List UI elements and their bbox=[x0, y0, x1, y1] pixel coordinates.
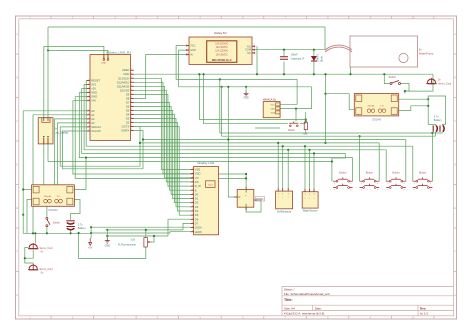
water pump M1 bbox=[350, 36, 434, 67]
svg-text:1: 1 bbox=[89, 95, 90, 97]
wire band L6 from 3V3 bbox=[84, 85, 386, 150]
svg-text:SoilMoisture: SoilMoisture bbox=[277, 209, 292, 213]
svg-text:LEDK: LEDK bbox=[195, 230, 202, 234]
svg-text:R_Potentiometer: R_Potentiometer bbox=[118, 244, 136, 247]
wire cr2040 BR to battery top bbox=[71, 200, 80, 220]
svg-text:B: B bbox=[16, 76, 18, 80]
wire cell2 bottom to L1 bbox=[441, 132, 443, 133]
svg-text:1: 1 bbox=[89, 109, 90, 111]
junction bbox=[22, 188, 24, 190]
svg-text:File: SchematicaProiectArcad_s: File: SchematicaProiectArcad_sch bbox=[284, 292, 330, 296]
junction bbox=[295, 108, 297, 110]
junction bbox=[106, 229, 108, 231]
svg-text:GND: GND bbox=[270, 108, 275, 110]
svg-text:D: D bbox=[454, 163, 456, 167]
wire capacitor bottom stub bbox=[283, 62, 285, 75]
svg-text:3V3: 3V3 bbox=[91, 83, 96, 87]
wire lcd LEDK to rail3 bbox=[170, 232, 191, 233]
svg-text:5v: 5v bbox=[438, 79, 441, 82]
wire buzzer pin1 down to CR2040 bbox=[43, 144, 45, 185]
wire arduino D pin row 6 to lcd pin 4 bbox=[134, 94, 191, 186]
svg-text:A: A bbox=[454, 32, 456, 36]
svg-text:CR2040: CR2040 bbox=[48, 208, 58, 212]
wire GND drop to band L2 bbox=[221, 87, 223, 136]
wire VCC drop to band L1 bbox=[219, 79, 221, 133]
svg-text:AREF: AREF bbox=[122, 68, 130, 72]
svg-text:Servo_Cont: Servo_Cont bbox=[40, 268, 54, 271]
svg-text:2: 2 bbox=[131, 105, 132, 107]
junction bbox=[313, 73, 315, 75]
junction bbox=[90, 232, 92, 234]
junction bbox=[219, 78, 221, 80]
wire band L5 from RESET bbox=[86, 81, 413, 147]
svg-text:D6: D6 bbox=[126, 104, 130, 108]
svg-text:2: 2 bbox=[350, 183, 351, 185]
svg-text:VCC: VCC bbox=[271, 104, 276, 106]
diode D1 1N4007 bbox=[311, 53, 323, 62]
wire arduino D pin row 4 to lcd pin 2 bbox=[134, 86, 191, 178]
wire VIN down to sensor feed line bbox=[73, 101, 246, 174]
svg-text:3.7v: 3.7v bbox=[380, 106, 384, 108]
ground symbol bottom bbox=[105, 238, 111, 247]
sensor U3 DHT22 bbox=[234, 187, 265, 211]
svg-text:3.7v: 3.7v bbox=[78, 224, 83, 227]
wire hahca pin1 hook to VCC run bbox=[280, 79, 297, 104]
wire relay GND run bbox=[179, 50, 312, 87]
wire L7 jog to button1 left bbox=[332, 153, 345, 181]
svg-text:1: 1 bbox=[192, 222, 193, 224]
wire L6 drop to button3 left bbox=[385, 150, 387, 181]
junction bbox=[427, 105, 429, 107]
svg-text:GND: GND bbox=[190, 49, 196, 52]
junction bbox=[106, 235, 108, 237]
svg-text:D13/SCK: D13/SCK bbox=[118, 76, 129, 80]
svg-text:1: 1 bbox=[89, 99, 90, 101]
svg-text:1: 1 bbox=[192, 189, 193, 191]
junction bbox=[221, 86, 223, 88]
ground symbol near U2 bbox=[243, 91, 249, 99]
svg-text:Switch: Switch bbox=[53, 222, 61, 225]
svg-text:D3: D3 bbox=[195, 205, 199, 209]
svg-text:16x2: 16x2 bbox=[208, 184, 214, 186]
svg-text:1: 1 bbox=[334, 183, 335, 185]
svg-text:Battery: Battery bbox=[434, 119, 443, 122]
wire L8 drop to button1 right bbox=[352, 158, 354, 182]
junction bbox=[304, 145, 306, 147]
svg-text:R_W: R_W bbox=[195, 184, 201, 188]
wire L1 drop to button4 right bbox=[431, 133, 433, 181]
svg-text:Rev:: Rev: bbox=[420, 306, 426, 310]
wire rail2 gnd bbox=[107, 229, 183, 231]
svg-text:10A 250VAC: 10A 250VAC bbox=[215, 43, 228, 46]
junction bbox=[24, 257, 26, 259]
wire to water pin2 bbox=[309, 150, 311, 189]
wire box pin to battery loop bbox=[399, 98, 429, 100]
svg-text:D7: D7 bbox=[195, 221, 199, 225]
wire band L4 bbox=[140, 142, 379, 144]
wire switch bottom stub bbox=[46, 227, 48, 233]
svg-text:2: 2 bbox=[377, 183, 378, 185]
svg-text:Button: Button bbox=[288, 129, 295, 132]
svg-text:2: 2 bbox=[131, 97, 132, 99]
wire arduino D pin row 5 to lcd pin 3 bbox=[134, 90, 191, 182]
junction bbox=[202, 73, 204, 75]
servo connector J2 bbox=[28, 243, 53, 254]
svg-text:1: 1 bbox=[89, 79, 90, 81]
wire relay IN to arduino D8 bbox=[134, 55, 186, 99]
sensor U6 water level bbox=[302, 189, 318, 213]
svg-text:200mAh: 200mAh bbox=[367, 105, 374, 108]
svg-text:2: 2 bbox=[430, 190, 431, 192]
svg-text:D2: D2 bbox=[126, 121, 130, 125]
wire arduino D pin row 10 to lcd pin 7 bbox=[134, 111, 191, 199]
wire to water pin1 bbox=[304, 146, 306, 189]
svg-text:HAHCA 5v: HAHCA 5v bbox=[263, 97, 277, 101]
svg-text:2: 2 bbox=[131, 77, 132, 79]
svg-text:VIN: VIN bbox=[91, 99, 96, 103]
wire pump switch right bbox=[401, 84, 410, 92]
svg-text:1: 1 bbox=[192, 181, 193, 183]
svg-text:A0: A0 bbox=[91, 109, 95, 113]
svg-text:2: 2 bbox=[131, 121, 132, 123]
svg-text:1: 1 bbox=[89, 126, 90, 128]
svg-text:E: E bbox=[195, 188, 197, 192]
svg-text:E: E bbox=[16, 206, 18, 210]
svg-text:RS: RS bbox=[195, 180, 199, 184]
wire arduino D pin row 13 to lcd pin 10 bbox=[134, 123, 191, 211]
svg-text:VDD: VDD bbox=[195, 172, 201, 176]
junction bbox=[331, 160, 333, 162]
junction bbox=[349, 73, 351, 75]
svg-text:Battery: Battery bbox=[78, 227, 87, 230]
svg-text:Diode: Diode bbox=[321, 55, 323, 62]
wire loop to cell1 top bbox=[428, 124, 435, 125]
svg-text:+10k: +10k bbox=[302, 133, 308, 135]
wire gnd symbol stub bbox=[106, 230, 108, 238]
svg-text:Id: 1/1: Id: 1/1 bbox=[420, 312, 428, 316]
svg-text:100nF: 100nF bbox=[291, 54, 299, 57]
svg-text:DHT22: DHT22 bbox=[256, 199, 264, 201]
svg-text:D: D bbox=[16, 163, 18, 167]
svg-text:1: 1 bbox=[192, 230, 193, 232]
svg-text:2: 2 bbox=[131, 69, 132, 71]
wire pot wiper bbox=[152, 236, 155, 242]
svg-text:Led_Display: Led_Display bbox=[54, 131, 69, 134]
wire gnd symbol stub top bbox=[245, 87, 247, 92]
wire to soil pin2 bbox=[282, 146, 284, 188]
svg-text:2: 2 bbox=[350, 190, 351, 192]
wire pot bottom loop bbox=[79, 235, 146, 258]
potentiometer RV1 10k bbox=[118, 238, 152, 248]
svg-text:D3: D3 bbox=[126, 117, 130, 121]
svg-text:B: B bbox=[454, 76, 456, 80]
wire cr2040 TL out bbox=[23, 189, 31, 191]
svg-text:CR2040: CR2040 bbox=[372, 117, 382, 121]
svg-text:1: 1 bbox=[89, 91, 90, 93]
junction bbox=[142, 138, 144, 140]
svg-text:D0/RX: D0/RX bbox=[121, 129, 129, 133]
svg-text:1: 1 bbox=[361, 183, 362, 185]
junction bbox=[145, 229, 147, 231]
wire SDA bbox=[60, 127, 140, 166]
svg-text:D10/SS: D10/SS bbox=[120, 88, 129, 92]
svg-text:SDA/A4: SDA/A4 bbox=[91, 125, 101, 129]
svg-text:2: 2 bbox=[377, 190, 378, 192]
wire battery loop box bbox=[428, 96, 445, 124]
svg-text:+5V: +5V bbox=[91, 87, 96, 91]
wire buzzer left vertical bbox=[43, 46, 45, 117]
svg-text:GND: GND bbox=[243, 97, 249, 100]
wire to soil pin1 bbox=[277, 143, 279, 188]
module U2 HAHCA bbox=[263, 97, 280, 117]
junction bbox=[287, 149, 289, 151]
wire relay COM to pipe node bbox=[255, 49, 325, 51]
svg-text:Button: Button bbox=[392, 172, 400, 175]
relay K1 bbox=[186, 31, 255, 64]
button SW4 bbox=[333, 172, 353, 192]
svg-text:2: 2 bbox=[131, 109, 132, 111]
svg-text:A2: A2 bbox=[91, 117, 95, 121]
svg-text:E: E bbox=[454, 206, 456, 210]
junction bbox=[198, 73, 200, 75]
junction bbox=[283, 73, 285, 75]
svg-text:SDA: SDA bbox=[271, 111, 276, 114]
wire L4 hook to D1 bbox=[134, 127, 140, 143]
wire DHT bottom loop bbox=[246, 200, 261, 212]
wire pump bottom stub bbox=[350, 67, 352, 74]
wire rail1 +5v to LCD LEDA bbox=[91, 226, 191, 228]
title block bbox=[282, 286, 454, 315]
svg-text:1: 1 bbox=[89, 113, 90, 115]
svg-text:2: 2 bbox=[131, 89, 132, 91]
svg-text:Button: Button bbox=[339, 172, 347, 175]
wire L3 drop to button3 right bbox=[405, 140, 407, 182]
wire arduino D pin row 8 to lcd pin 5 bbox=[134, 102, 191, 190]
pipe from relay to pump bbox=[325, 45, 352, 52]
svg-text:Servo_Cont: Servo_Cont bbox=[438, 83, 452, 86]
svg-text:D5: D5 bbox=[195, 213, 199, 217]
svg-text:1: 1 bbox=[89, 87, 90, 89]
svg-text:KiCad E.D.A. eeschema (6.0.8): KiCad E.D.A. eeschema (6.0.8) bbox=[284, 312, 324, 316]
svg-text:200mAh: 200mAh bbox=[44, 195, 51, 198]
svg-text:WaterPump: WaterPump bbox=[419, 52, 434, 56]
wire mid net B to button bbox=[204, 74, 288, 124]
junction bbox=[324, 73, 326, 75]
svg-text:VSS: VSS bbox=[195, 168, 201, 172]
battery holder BT1 CR2040 left bbox=[32, 185, 75, 212]
power symbol +5V bbox=[88, 238, 93, 249]
wire arduino D pin row 2 to lcd pin 0 bbox=[134, 78, 191, 169]
svg-text:1: 1 bbox=[334, 190, 335, 192]
wire hahca drop to mid button bbox=[295, 109, 297, 122]
wire to water pin3 bbox=[313, 153, 315, 189]
svg-text:10A 125VAC: 10A 125VAC bbox=[215, 50, 228, 53]
wire band L9 bbox=[48, 161, 332, 163]
switch SW2 pump bbox=[389, 76, 401, 85]
svg-text:D5: D5 bbox=[126, 108, 130, 112]
svg-text:5v: 5v bbox=[41, 251, 44, 254]
svg-text:Arduino_UNO_R3: Arduino_UNO_R3 bbox=[106, 51, 131, 55]
wire into battery box top bbox=[405, 91, 409, 93]
wire relay NO down bbox=[256, 46, 258, 74]
wire diode top stub bbox=[313, 50, 315, 56]
wire A3 down to CR2040 top bbox=[58, 123, 87, 185]
svg-text:U5B: U5B bbox=[102, 62, 107, 64]
svg-text:2: 2 bbox=[131, 125, 132, 127]
buzzer LS1 bbox=[38, 118, 69, 144]
svg-text:D6: D6 bbox=[195, 217, 199, 221]
svg-text:A: A bbox=[16, 32, 18, 36]
button SW7 bbox=[413, 172, 433, 192]
svg-text:1: 1 bbox=[192, 197, 193, 199]
svg-text:5v: 5v bbox=[41, 272, 44, 275]
junction bbox=[153, 235, 155, 237]
junction bbox=[46, 232, 48, 234]
junction bbox=[32, 232, 34, 234]
wire rail4 bbox=[107, 235, 168, 237]
wire mid net A bbox=[199, 74, 305, 119]
junction bbox=[324, 93, 326, 95]
svg-text:1: 1 bbox=[192, 193, 193, 195]
wire L3 down to SCL run bbox=[142, 140, 144, 169]
junction bbox=[85, 157, 87, 159]
svg-text:Relay 5V: Relay 5V bbox=[214, 31, 226, 35]
wire mid button to resistor bbox=[300, 123, 306, 125]
wire arduino D pin row 12 to lcd pin 9 bbox=[134, 119, 191, 207]
svg-text:F: F bbox=[454, 250, 456, 254]
svg-text:2: 2 bbox=[131, 101, 132, 103]
wire GND run down to DHT left pin bbox=[228, 87, 234, 197]
svg-text:D8: D8 bbox=[126, 96, 130, 100]
svg-text:2: 2 bbox=[131, 81, 132, 83]
svg-text:VO: VO bbox=[195, 176, 199, 180]
switch SW1 left bbox=[46, 217, 61, 226]
svg-text:A1: A1 bbox=[91, 113, 95, 117]
servo connector J3 bbox=[28, 264, 53, 275]
junction bbox=[308, 149, 310, 151]
junction bbox=[324, 142, 326, 144]
svg-text:GND: GND bbox=[123, 72, 129, 76]
svg-text:Switch: Switch bbox=[389, 76, 397, 79]
junction bbox=[139, 142, 141, 144]
junction bbox=[283, 49, 285, 51]
wire cell1 bottom to L2 bbox=[434, 132, 436, 136]
capacitor C1 100nF bbox=[280, 54, 305, 61]
wire DHT top pin up bbox=[245, 174, 247, 187]
wire box pin2 to loop bbox=[399, 106, 429, 111]
svg-text:GND: GND bbox=[105, 244, 111, 247]
svg-text:2: 2 bbox=[131, 129, 132, 131]
junction bbox=[245, 86, 247, 88]
junction bbox=[34, 232, 36, 234]
svg-text:D12/MISO: D12/MISO bbox=[117, 80, 130, 84]
svg-text:1: 1 bbox=[192, 226, 193, 228]
junction bbox=[282, 145, 284, 147]
svg-text:Servo_Cont: Servo_Cont bbox=[40, 247, 54, 250]
svg-text:F: F bbox=[16, 250, 18, 254]
wire top rail to pump valve node bbox=[48, 27, 325, 50]
svg-text:1: 1 bbox=[388, 183, 389, 185]
wire SCL bbox=[63, 131, 144, 169]
svg-text:2: 2 bbox=[430, 183, 431, 185]
wire A1 left down to rail bbox=[33, 115, 87, 234]
junction bbox=[305, 120, 307, 122]
svg-text:10A 28VDC: 10A 28VDC bbox=[216, 53, 228, 56]
wire lcd D7 to rail2 bbox=[183, 223, 191, 230]
wire pump switch left bbox=[384, 74, 390, 83]
wire left gnd rail bbox=[23, 215, 91, 234]
stub pot loop bbox=[78, 233, 80, 235]
svg-text:1: 1 bbox=[192, 172, 193, 174]
wire L3 hook to D0 bbox=[134, 131, 143, 140]
svg-text:G: G bbox=[454, 293, 456, 297]
resistor R1 10k bbox=[302, 122, 308, 135]
svg-text:Capacitor_P: Capacitor_P bbox=[291, 58, 305, 61]
wire resistor bottom bbox=[305, 130, 307, 134]
junction bbox=[313, 49, 315, 51]
wire +5v symbol stub bbox=[90, 227, 92, 238]
button SW5 bbox=[360, 172, 380, 192]
svg-text:1: 1 bbox=[361, 190, 362, 192]
wire feed to battery box left pin bbox=[326, 94, 355, 110]
svg-text:2: 2 bbox=[131, 93, 132, 95]
wire arduino D pin row 9 to lcd pin 6 bbox=[134, 106, 191, 194]
wire servo loop bbox=[25, 248, 33, 265]
wire band L3 bbox=[143, 139, 406, 141]
junction bbox=[245, 173, 247, 175]
svg-text:3.7v: 3.7v bbox=[57, 196, 61, 198]
svg-text:2: 2 bbox=[131, 113, 132, 115]
svg-text:D1: D1 bbox=[195, 197, 199, 201]
wire arduino D pin row 14 to lcd pin 11 bbox=[134, 127, 191, 216]
wire A0 far left down bbox=[23, 111, 86, 215]
junction bbox=[404, 90, 406, 92]
svg-text:D4: D4 bbox=[126, 112, 130, 116]
wire arduino D pin row 3 to lcd pin 1 bbox=[134, 82, 191, 173]
wire switch loop right down bbox=[405, 74, 433, 91]
svg-text:IN: IN bbox=[190, 54, 193, 57]
svg-text:3.7v: 3.7v bbox=[434, 116, 439, 119]
svg-text:10A 30VDC: 10A 30VDC bbox=[216, 46, 228, 49]
wire L4 down to SDA run bbox=[139, 143, 141, 166]
junction bbox=[431, 132, 433, 134]
svg-text:1: 1 bbox=[192, 214, 193, 216]
svg-text:C: C bbox=[454, 119, 456, 123]
junction bbox=[277, 142, 279, 144]
junction bbox=[359, 135, 361, 137]
wire line2 to arduino top pin2 bbox=[48, 50, 108, 58]
svg-text:10k: 10k bbox=[131, 238, 136, 241]
wire battery left bottom bbox=[70, 230, 72, 233]
svg-text:Title:: Title: bbox=[284, 298, 293, 302]
wire band L7 from +5V bbox=[82, 89, 346, 154]
wire L5 drop to button4 left bbox=[412, 146, 414, 181]
svg-text:D4: D4 bbox=[195, 209, 199, 213]
wire cr2040 TR up to band L8 bbox=[74, 158, 86, 190]
battery holder BT2 CR2040 right bbox=[354, 94, 398, 122]
wire capacitor top stub bbox=[283, 50, 285, 57]
svg-text:Button: Button bbox=[366, 172, 374, 175]
svg-text:A3: A3 bbox=[91, 121, 95, 125]
svg-text:D1/TX: D1/TX bbox=[122, 125, 130, 129]
wire relay VCC run bbox=[176, 46, 297, 80]
junction bbox=[305, 118, 307, 120]
wire GND line drop to band bbox=[325, 74, 327, 143]
pushbutton SW3 mid bbox=[288, 122, 298, 133]
svg-text:LEDA: LEDA bbox=[195, 226, 202, 230]
svg-text:VCC: VCC bbox=[190, 45, 195, 48]
svg-text:1: 1 bbox=[89, 122, 90, 124]
